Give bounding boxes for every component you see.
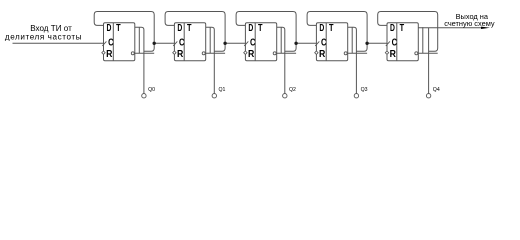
svg-text:R: R [390,49,396,60]
wire: U4 feedback loop to D input [307,12,367,52]
wire: U1 feedback loop to D input [94,12,154,52]
svg-text:T: T [329,23,334,34]
U4 R inversion diamond [315,51,318,54]
wire: U4 to U5 C input bus [367,42,387,44]
svg-text:D: D [390,23,395,34]
U3 R inversion diamond [244,51,247,54]
svg-text:C: C [321,38,327,49]
svg-text:D: D [177,23,182,34]
junction dot on U2 feedback vertical [223,42,226,45]
wire: U5 inverse output horizontal [418,52,437,54]
svg-text:C: C [179,38,185,49]
wire: U5 output link vertical [422,27,424,53]
U5 C dynamic-edge slash [386,41,390,46]
junction dot on U1 feedback vertical [153,42,156,45]
U4 C dynamic-edge slash [315,41,319,46]
U4 inverse output circle [344,52,347,55]
U2 C dynamic-edge slash [173,41,177,46]
U5 inverse output circle [415,52,418,55]
wire: U1 inverse output horizontal [135,52,154,54]
svg-text:C: C [250,38,256,49]
output arrowhead [481,27,490,29]
node Q1 output terminal [212,94,216,98]
wire: U3 Q output to terminal Q2 [277,27,285,93]
wire: U5 feedback loop to D input [378,12,438,52]
svg-text:T: T [187,23,192,34]
wire: U5 Q output to terminal Q4 [418,27,481,29]
wire: U2 output link vertical [209,27,211,53]
svg-text:делителя частоты: делителя частоты [5,32,82,41]
D flip-flop U5 box [387,23,418,61]
node Q4 output terminal [426,94,430,98]
node Q3 output terminal [354,94,358,98]
svg-text:R: R [177,49,183,60]
wire: U2 Q output to terminal Q1 [206,27,215,93]
svg-text:Q0: Q0 [148,87,155,93]
U2 R inversion diamond [173,51,176,54]
U3 C dynamic-edge slash [244,41,248,46]
node Q2 output terminal [283,94,287,98]
wire: U3 output link vertical [280,27,282,53]
U1 inverse output circle [131,52,134,55]
svg-text:D: D [107,23,112,34]
U3 inverse output circle [273,52,276,55]
svg-text:C: C [392,38,398,49]
svg-text:D: D [319,23,324,34]
node Q0 output terminal [142,94,146,98]
wire: U3 feedback loop to D input [236,12,296,52]
U1 R inversion diamond [102,51,105,54]
wire: clock input to U1 C [13,42,104,44]
U1 C dynamic-edge slash [102,41,106,46]
svg-text:R: R [248,49,254,60]
D flip-flop U2 box [174,23,205,61]
D flip-flop U1 box [104,23,135,61]
svg-text:R: R [106,49,112,60]
svg-text:Q4: Q4 [433,87,440,93]
U2 inverse output circle [202,52,205,55]
wire: U2 inverse output horizontal [206,52,225,54]
D flip-flop U3 box [245,23,276,61]
junction dot on U3 feedback vertical [294,42,297,45]
svg-text:T: T [258,23,263,34]
wire: U3 to U4 C input bus [296,42,316,44]
svg-text:R: R [319,49,325,60]
svg-text:C: C [108,38,114,49]
wire: U1 output link vertical [138,27,140,53]
wire: U4 output link vertical [351,27,353,53]
svg-text:T: T [116,23,121,34]
svg-text:Q2: Q2 [289,87,296,93]
wire: U2 feedback loop to D input [165,12,225,52]
wire: U3 inverse output horizontal [277,52,296,54]
junction dot on U4 feedback vertical [365,42,368,45]
D flip-flop U4 box [316,23,347,61]
wire: U4 inverse output horizontal [348,52,367,54]
svg-text:T: T [400,23,405,34]
wire: U2 to U3 C input bus [225,42,245,44]
wire: U5 drop to terminal Q4 [428,28,430,94]
svg-text:счетную схему: счетную схему [444,19,495,28]
wire: U1 to U2 C input bus [154,42,174,44]
wire: U4 Q output to terminal Q3 [348,27,357,93]
svg-text:Q3: Q3 [361,87,368,93]
svg-text:Q1: Q1 [219,87,226,93]
wire: U1 Q output to terminal Q0 [135,27,144,93]
U5 R inversion diamond [385,51,388,54]
svg-text:D: D [248,23,253,34]
